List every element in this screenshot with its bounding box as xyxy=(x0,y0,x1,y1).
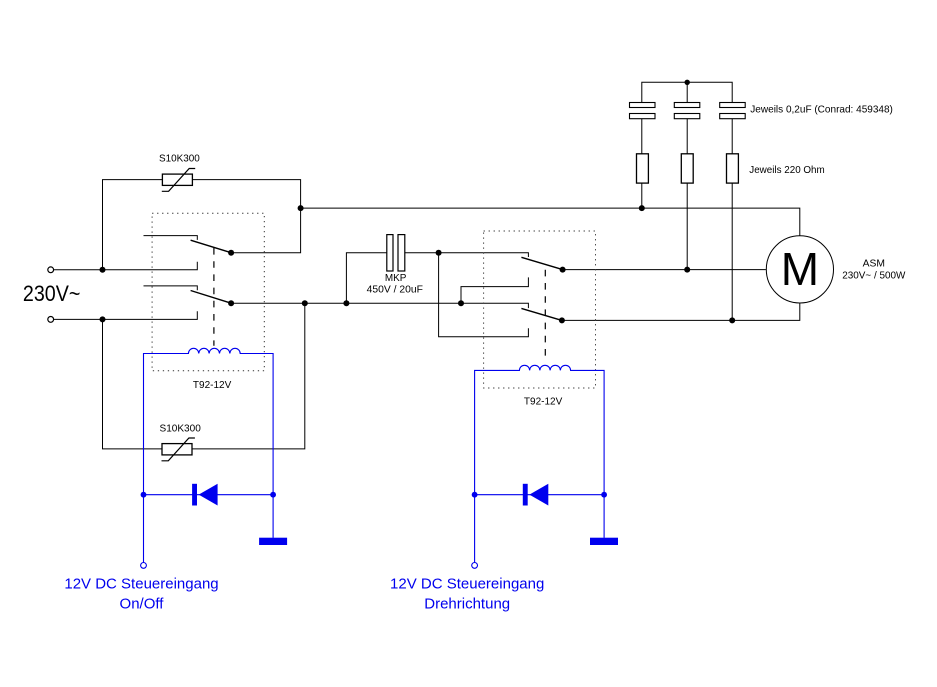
svg-text:T92-12V: T92-12V xyxy=(193,380,232,391)
node coil K1 positive xyxy=(270,492,276,498)
node coil K1 negative xyxy=(141,492,147,498)
wire control input On/Off xyxy=(143,495,145,563)
wire varistor R6 bottom loop xyxy=(103,303,305,449)
wire main phase rail to motor top xyxy=(301,208,800,236)
relay K1 coil and frame (blue) xyxy=(144,348,274,494)
label 230V~ / 500W xyxy=(842,270,905,281)
wire diode D2 row xyxy=(475,494,604,496)
node junction input L / varistor branch xyxy=(100,267,106,273)
wire relay K2 pole 2 NC contact xyxy=(439,253,529,337)
wire relay K1 pole 1 output xyxy=(231,208,301,253)
label On/Off xyxy=(120,595,165,612)
wire relay K2 pole 1 output to motor left xyxy=(563,269,766,271)
label Drehrichtung xyxy=(424,595,510,612)
svg-text:450V / 20uF: 450V / 20uF xyxy=(367,285,423,296)
wire C3 to R3 xyxy=(731,119,733,154)
relay K2 actuator dashed link xyxy=(544,263,546,362)
label MKP xyxy=(385,273,407,284)
svg-text:On/Off: On/Off xyxy=(120,595,165,612)
relay K2 contact pole 2 arm xyxy=(521,308,562,320)
varistor R5 S10K300 body xyxy=(162,169,195,192)
label Jeweils 220 Ohm xyxy=(749,165,824,176)
capacitor C3 xyxy=(720,103,746,119)
wire C2 to R2 xyxy=(686,119,688,154)
wire C1 to R1 xyxy=(641,119,643,154)
label 12V DC Steuereingang (Drehrichtung) xyxy=(390,575,544,592)
resistor R1 xyxy=(637,154,649,183)
svg-text:MKP: MKP xyxy=(385,273,407,284)
node junction R1 / phase rail xyxy=(639,205,645,211)
wire 230V L input to relay K1 fixed contact xyxy=(54,262,198,270)
relay K1 contact pole 1 arm xyxy=(191,240,232,253)
capacitor C1 xyxy=(630,103,656,119)
node junction C4 / relay K2 pole 1 xyxy=(436,250,442,256)
resistor R2 xyxy=(681,154,693,183)
wire capacitor bank top rail xyxy=(642,82,732,102)
relay K1 contact pole 1 common bar xyxy=(144,236,198,240)
wire R2 to motor left wire xyxy=(686,183,688,270)
node coil K2 positive xyxy=(601,492,607,498)
relay K2 contact pole 1 arm xyxy=(521,257,562,269)
ground K1 xyxy=(259,538,287,545)
wire R3 to motor bottom wire xyxy=(731,183,733,320)
svg-text:Drehrichtung: Drehrichtung xyxy=(424,595,510,612)
svg-text:12V DC Steuereingang: 12V DC Steuereingang xyxy=(64,575,218,592)
terminal 230V line input L xyxy=(48,267,54,273)
node relay K2 pole 2 throw xyxy=(559,317,565,323)
wire R1 to phase rail xyxy=(641,183,643,208)
relay K1 actuator dashed link xyxy=(213,248,215,346)
node junction C4 / neutral rail xyxy=(343,300,349,306)
node relay K2 pole 1 throw xyxy=(560,267,566,273)
node junction phase rail xyxy=(298,205,304,211)
terminal control input On/Off xyxy=(141,563,147,569)
wire relay K2 pole 1 NC contact xyxy=(461,277,528,303)
node junction R2 / motor left wire xyxy=(684,267,690,273)
label S10K300 (top varistor) xyxy=(159,154,200,165)
wire K2 to ground xyxy=(603,495,605,538)
wire K1 to ground xyxy=(272,495,274,538)
relay K2 coil and frame (blue) xyxy=(475,365,604,494)
svg-text:230V~ / 500W: 230V~ / 500W xyxy=(842,270,905,281)
node coil K2 negative xyxy=(472,492,478,498)
svg-text:12V DC Steuereingang: 12V DC Steuereingang xyxy=(390,575,544,592)
svg-text:S10K300: S10K300 xyxy=(160,424,202,435)
relay K1 dotted outline xyxy=(152,213,264,371)
diode D1 xyxy=(192,484,218,506)
relay K1 contact pole 2 arm xyxy=(191,291,232,304)
label T92-12V (relay K1) xyxy=(193,380,232,391)
svg-text:230V~: 230V~ xyxy=(23,281,81,306)
diode D2 xyxy=(523,484,549,506)
label 450V / 20uF xyxy=(367,285,423,296)
wire control input Drehrichtung xyxy=(474,495,476,563)
wire diode D1 row xyxy=(144,494,274,496)
wire capacitor C4 left leg to neutral rail xyxy=(346,253,386,304)
node junction NC1 / neutral rail xyxy=(458,300,464,306)
svg-text:T92-12V: T92-12V xyxy=(524,396,563,407)
label T92-12V (relay K2) xyxy=(524,396,563,407)
label ASM xyxy=(863,259,885,270)
svg-text:ASM: ASM xyxy=(863,259,885,270)
label Jeweils 0,2uF (Conrad: 459348) xyxy=(750,104,893,115)
node junction capacitor bank top xyxy=(685,80,690,85)
label 230V~ xyxy=(23,281,81,306)
wire relay K2 pole 2 output to motor bottom xyxy=(562,303,800,320)
node junction input N / varistor R6 branch xyxy=(100,316,106,322)
svg-text:Jeweils 220 Ohm: Jeweils 220 Ohm xyxy=(749,165,824,176)
svg-text:Jeweils 0,2uF (Conrad: 459348): Jeweils 0,2uF (Conrad: 459348) xyxy=(750,104,893,115)
varistor R6 S10K300 body xyxy=(162,438,195,461)
node junction R3 / motor bottom wire xyxy=(729,317,735,323)
wire capacitor C4 right to relay K2 pole 1 common xyxy=(405,253,529,257)
wire neutral rail relay K1 to relay K2 pole 2 xyxy=(231,303,528,308)
node relay K1 pole 2 throw xyxy=(228,300,234,306)
node relay K1 pole 1 throw xyxy=(228,250,234,256)
terminal control input Drehrichtung xyxy=(472,563,478,569)
capacitor C4 MKP plates xyxy=(387,235,405,271)
wire 230V N input to relay K1 fixed contact xyxy=(54,311,198,319)
resistor R3 xyxy=(727,154,739,183)
terminal 230V line input N xyxy=(48,317,54,323)
svg-text:S10K300: S10K300 xyxy=(159,154,200,165)
node junction varistor R6 / neutral rail xyxy=(302,300,308,306)
relay K1 contact pole 2 common bar xyxy=(144,286,198,290)
relay K2 dotted outline xyxy=(484,231,596,388)
label 12V DC Steuereingang (On/Off) xyxy=(64,575,218,592)
ground K2 xyxy=(590,538,618,545)
label S10K300 (bottom varistor) xyxy=(160,424,202,435)
motor M1 circle xyxy=(766,236,833,303)
wire varistor R5 top loop xyxy=(103,180,301,270)
svg-text:M: M xyxy=(781,243,819,295)
capacitor C2 xyxy=(674,103,700,119)
